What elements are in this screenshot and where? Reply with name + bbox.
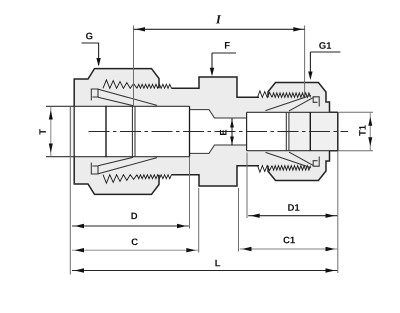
dimension D1 arrows bbox=[250, 214, 260, 218]
body outline top bbox=[172, 77, 260, 97]
body bore step top bbox=[190, 110, 247, 118]
label G text bbox=[86, 33, 92, 40]
left tube inner end bbox=[132, 106, 135, 156]
dimension L label bbox=[215, 260, 220, 267]
right tube stub outline bbox=[330, 112, 338, 150]
label G1 text bbox=[319, 42, 331, 49]
dimension D1 label bbox=[288, 204, 299, 211]
right ferrule bracket top bbox=[313, 97, 319, 107]
left nut outline bottom bbox=[74, 157, 159, 195]
ext lines T1 bbox=[339, 112, 374, 150]
dimension L arrows bbox=[75, 268, 85, 272]
dimension I label bbox=[216, 15, 221, 23]
ext line C right bbox=[198, 188, 200, 253]
ext line C1 left bbox=[238, 188, 240, 252]
tube/bore top line bbox=[46, 105, 190, 107]
dimension E line bbox=[231, 118, 233, 145]
left ferrule cone top bbox=[98, 89, 157, 105]
dimension I line bbox=[134, 28, 305, 30]
left tube end bbox=[69, 106, 71, 156]
dimension D label bbox=[131, 213, 137, 220]
left tube stub bbox=[70, 106, 74, 156]
right threads top bbox=[258, 91, 311, 98]
right ferrule front edge bbox=[309, 112, 311, 151]
label F text bbox=[225, 42, 230, 49]
dimension D line bbox=[72, 225, 189, 227]
label G1 leader bbox=[310, 52, 340, 78]
bore interior bbox=[74, 106, 338, 156]
right ferrule cone bottom bbox=[266, 152, 314, 168]
left nut threads bottom bbox=[103, 175, 172, 184]
left nut face bbox=[73, 79, 75, 184]
rear ferrule back bbox=[105, 106, 107, 157]
centerline bbox=[89, 131, 349, 133]
right ferrule cone top bbox=[266, 95, 314, 111]
body bore step bottom bbox=[190, 145, 247, 153]
body internal shoulder bbox=[189, 106, 191, 156]
right nut outline top bbox=[268, 83, 330, 113]
bore step vertical bbox=[246, 112, 248, 150]
right nut outline bottom bbox=[268, 151, 330, 181]
left ferrule bracket top bbox=[91, 89, 98, 100]
dimension C arrows bbox=[75, 248, 85, 252]
label G arrow bbox=[96, 58, 100, 67]
dimension C1 line bbox=[240, 248, 338, 250]
label F leader bbox=[212, 53, 236, 74]
label F arrow bbox=[210, 68, 214, 77]
ext line D right bbox=[189, 157, 191, 229]
right tube end bbox=[337, 112, 339, 151]
dimension L line bbox=[72, 270, 337, 272]
ext line right (tube end down) bbox=[337, 151, 339, 273]
dimension T arrows bbox=[49, 110, 53, 120]
dimension T1 label bbox=[359, 125, 366, 136]
body outline bottom bbox=[172, 166, 260, 186]
dimension D arrows bbox=[75, 224, 85, 228]
dimension D1 line bbox=[248, 215, 337, 217]
fitting body silhouette bbox=[74, 69, 338, 195]
dimension E arrows bbox=[230, 119, 234, 128]
dimension C1 arrows bbox=[242, 247, 252, 251]
right tube bbox=[289, 112, 338, 150]
dimension T line bbox=[50, 107, 52, 156]
ext lines I bbox=[134, 26, 305, 107]
right bore bottom bbox=[247, 150, 338, 152]
dimension T1 line bbox=[369, 113, 371, 151]
dimension T label bbox=[39, 129, 46, 135]
dimension C1 label bbox=[283, 237, 294, 244]
left nut outline top bbox=[74, 69, 159, 107]
dimension C line bbox=[72, 249, 198, 251]
right tube inner end bbox=[286, 112, 289, 150]
dimension I arrows bbox=[136, 27, 146, 31]
label G leader bbox=[82, 43, 99, 65]
dimension C label bbox=[132, 238, 138, 245]
left nut threads top bbox=[103, 80, 172, 89]
dimension T1 arrows bbox=[368, 117, 372, 126]
left ferrule bracket bottom bbox=[91, 163, 98, 174]
left ferrule cone bottom bbox=[98, 157, 157, 173]
label G1 arrow bbox=[308, 72, 312, 81]
tube/bore bottom line bbox=[46, 156, 190, 158]
ext line left (D C L) bbox=[69, 157, 71, 275]
dimension E label bbox=[220, 130, 227, 135]
right ferrule bracket bottom bbox=[313, 157, 319, 167]
right bore top bbox=[247, 111, 338, 113]
right threads bottom bbox=[258, 166, 311, 173]
ext line D1 left bbox=[246, 153, 248, 219]
